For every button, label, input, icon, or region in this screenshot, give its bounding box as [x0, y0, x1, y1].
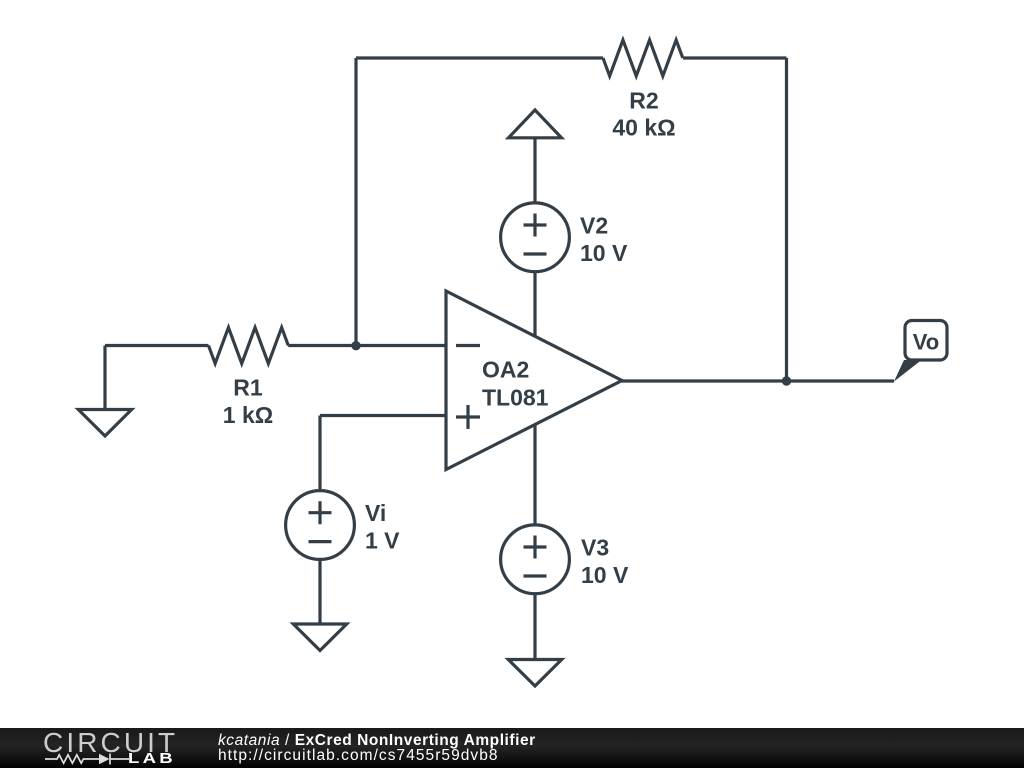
svg-text:R1: R1 — [233, 375, 263, 401]
Vi plus symbol — [309, 501, 332, 524]
wire: op-amp bottom edge to V3 — [533, 424, 536, 525]
op-amp non-inverting input marker — [456, 405, 480, 429]
ground GND1 (left of R1) — [78, 410, 131, 437]
svg-text:V2: V2 — [580, 212, 608, 238]
ground GND3 (below V3) — [508, 660, 561, 687]
net flag Vo tail — [894, 360, 922, 382]
V3 minus symbol — [524, 574, 547, 577]
svg-text:Vi: Vi — [365, 500, 386, 526]
svg-text:1 kΩ: 1 kΩ — [223, 402, 273, 428]
wire: Vi bottom to ground — [318, 559, 321, 624]
svg-text:10 V: 10 V — [581, 562, 629, 588]
ground GND2 (below Vi) — [293, 624, 346, 651]
CircuitLab logo word — [43, 729, 178, 757]
wire: R1 left lead — [105, 344, 209, 347]
svg-text:Vo: Vo — [913, 330, 939, 355]
voltage source Vi body — [286, 491, 355, 560]
wire: V2 bottom to op-amp top edge — [533, 272, 536, 337]
resistor R1 — [209, 328, 289, 364]
wire: feedback right vertical — [785, 58, 788, 381]
V2 plus symbol — [524, 214, 547, 237]
svg-text:V3: V3 — [581, 534, 609, 560]
net flag Vo box — [905, 321, 947, 361]
CircuitLab logo resistor-diode glyph — [44, 752, 130, 766]
wire: R1 right lead to op-amp inverting input — [288, 344, 446, 347]
footer url — [218, 748, 499, 764]
voltage source V3 body — [501, 525, 570, 594]
wire: non-inverting input horizontal — [320, 414, 446, 417]
Vi minus symbol — [309, 540, 332, 543]
power arrow flag (V+) above V2 — [509, 110, 562, 138]
resistor R2 — [603, 40, 683, 76]
wire: Vi riser — [318, 416, 321, 492]
wire: top horizontal to R2 — [356, 56, 603, 59]
op-amp inverting input marker — [456, 344, 480, 347]
V3 plus symbol — [524, 536, 547, 559]
node junction at R1 / feedback — [351, 341, 360, 350]
svg-text:10 V: 10 V — [580, 240, 628, 266]
node junction at output / feedback — [782, 376, 791, 385]
voltage source V2 body — [501, 203, 570, 272]
op-amp U1 OA2 body — [446, 291, 622, 470]
footer bar — [0, 728, 1024, 768]
svg-text:TL081: TL081 — [482, 385, 549, 411]
svg-text:40 kΩ: 40 kΩ — [612, 114, 675, 140]
wire: R2 right lead — [683, 56, 787, 59]
wire: V3 bottom to ground — [533, 594, 536, 660]
svg-text:1 V: 1 V — [365, 528, 400, 554]
svg-text:R2: R2 — [629, 88, 658, 114]
wire: left ground riser — [103, 346, 106, 410]
wire: feedback left vertical — [354, 58, 357, 346]
footer title — [218, 733, 536, 749]
V2 minus symbol — [524, 252, 547, 255]
wire: output — [622, 379, 894, 382]
wire: power arrow to V2 top — [533, 138, 536, 204]
svg-text:OA2: OA2 — [482, 357, 529, 383]
